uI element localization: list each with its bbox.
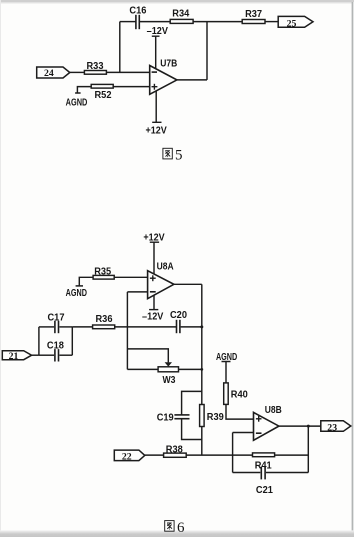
resistor R38	[164, 445, 187, 458]
connector 21	[2, 351, 31, 363]
wire R37 to connector 25	[265, 21, 278, 23]
svg-text:–12V: –12V	[142, 312, 164, 323]
svg-text:+12V: +12V	[145, 126, 167, 137]
power +12V U8A	[143, 233, 165, 275]
wire W3 wiper horizontal	[127, 349, 168, 363]
ground AGND (top circuit)	[66, 93, 88, 109]
resistor R35	[93, 267, 114, 280]
wire 22 to R38	[145, 454, 164, 456]
resistor R36	[93, 314, 115, 329]
resistor R34	[170, 9, 193, 24]
wire C16 to R34	[140, 21, 170, 23]
wire feedback right vertical	[307, 426, 309, 472]
connector 24	[37, 67, 70, 79]
resistor R37	[242, 9, 265, 24]
op-amp U8B	[254, 405, 282, 441]
resistor R33	[84, 61, 106, 74]
svg-text:–12V: –12V	[147, 26, 169, 37]
wire R39 to R38 line	[201, 427, 203, 456]
wire to U8B inverting input	[233, 432, 254, 434]
svg-text:C21: C21	[256, 485, 273, 496]
connector 25	[278, 16, 313, 29]
svg-text:C19: C19	[157, 413, 174, 424]
wire R33 to U7B inverting input	[106, 71, 149, 73]
svg-text:R36: R36	[96, 314, 113, 325]
svg-text:R41: R41	[255, 461, 272, 472]
power -12V U8A	[142, 296, 164, 323]
svg-text:23: 23	[327, 423, 337, 433]
wire U8B output to connector 23	[279, 425, 321, 427]
wire C20 to main vertical	[181, 326, 202, 328]
svg-text:R38: R38	[166, 445, 183, 456]
wire R52 to AGND	[77, 87, 91, 93]
svg-text:C18: C18	[47, 341, 64, 352]
wire main vertical (output bus)	[201, 284, 203, 404]
wire R35 to AGND	[79, 277, 93, 286]
op-amp U7B	[150, 59, 178, 95]
wire R41 to output vertical	[275, 454, 309, 456]
svg-text:R52: R52	[95, 90, 112, 101]
caption 图 5	[163, 148, 183, 164]
wire feedback top to C16	[120, 21, 136, 23]
svg-text:6: 6	[177, 520, 185, 536]
ground AGND (U8A)	[66, 286, 87, 299]
svg-text:24: 24	[44, 69, 54, 79]
ground AGND (U8B)	[216, 352, 237, 383]
power -12V U7B	[147, 26, 169, 69]
wire R34 to R37	[193, 21, 242, 23]
svg-text:R40: R40	[231, 389, 248, 400]
resistor R41	[253, 453, 275, 472]
svg-text:C20: C20	[170, 310, 187, 321]
connector 22	[114, 450, 145, 462]
wire U8A feedback vertical	[126, 292, 128, 370]
wire C17/C18 right vertical	[71, 327, 73, 355]
capacitor C16	[129, 5, 146, 29]
wire R38 to inverting node	[186, 454, 232, 456]
wire output junction vertical	[206, 22, 208, 80]
svg-text:25: 25	[287, 19, 297, 29]
svg-text:R39: R39	[207, 412, 224, 423]
svg-text:C16: C16	[129, 5, 146, 16]
wire 24 to R33	[70, 71, 85, 73]
op-amp U8A	[148, 261, 174, 298]
svg-text:U7B: U7B	[160, 59, 177, 70]
svg-text:22: 22	[122, 452, 132, 462]
wire R36 to C20	[115, 326, 176, 328]
wire to U8A inverting input	[127, 291, 147, 293]
page border right	[352, 2, 354, 537]
resistor R39	[200, 405, 225, 427]
svg-text:5: 5	[175, 148, 183, 164]
wire caps to R36	[72, 326, 92, 328]
page border left	[0, 0, 1, 537]
wire feedback left vertical	[232, 433, 234, 473]
capacitor C20	[170, 310, 187, 333]
capacitor C19	[157, 391, 202, 439]
svg-text:W3: W3	[163, 375, 176, 386]
resistor R52	[91, 84, 113, 101]
page border top	[0, 0, 354, 2]
wire R35 to U8A non-inverting input	[114, 276, 147, 278]
svg-text:U8B: U8B	[265, 405, 282, 416]
svg-text:R34: R34	[172, 9, 189, 20]
wire W3 left	[127, 368, 158, 370]
connector 23	[321, 421, 351, 434]
svg-text:C17: C17	[48, 312, 65, 323]
wire R52 to U7B non-inverting input	[113, 86, 150, 88]
node output junction	[307, 425, 310, 428]
wire feedback vertical	[119, 22, 121, 73]
capacitor C18	[39, 341, 72, 362]
wire U8A output	[174, 283, 202, 285]
svg-text:AGND: AGND	[66, 98, 88, 109]
potentiometer W3	[158, 362, 178, 386]
wire node to R41	[233, 454, 253, 456]
wire W3 right	[179, 368, 202, 370]
wire U7B output	[177, 79, 207, 81]
resistor R40	[224, 383, 248, 405]
svg-text:R35: R35	[94, 267, 111, 278]
svg-text:21: 21	[9, 352, 19, 362]
capacitor C17	[39, 312, 72, 333]
wire 21 to capacitor bank	[32, 354, 39, 356]
node W3 junction	[200, 368, 203, 371]
wire R40 to U8B non-inverting input	[226, 404, 254, 419]
svg-text:R37: R37	[245, 9, 262, 20]
node C20 junction	[200, 325, 203, 328]
wire C17/C18 left vertical	[38, 327, 40, 355]
caption 图 6	[165, 520, 185, 536]
svg-text:R33: R33	[87, 61, 104, 72]
power +12V U7B	[145, 91, 167, 137]
svg-text:AGND: AGND	[66, 288, 87, 299]
capacitor C21	[233, 467, 309, 496]
svg-text:U8A: U8A	[157, 261, 174, 272]
